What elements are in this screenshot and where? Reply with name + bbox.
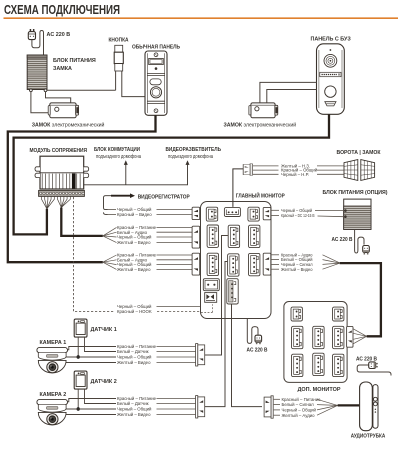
sensor ДАТЧИК 1	[74, 319, 87, 337]
svg-text:СХЕМА ПОДКЛЮЧЕНИЯ: СХЕМА ПОДКЛЮЧЕНИЯ	[4, 3, 120, 17]
svg-text:ЗАМОК электромеханический: ЗАМОК электромеханический	[32, 122, 105, 129]
svg-text:КНОПКА: КНОПКА	[109, 38, 129, 44]
connector C7	[207, 253, 218, 275]
junction dot camera2 common	[77, 407, 80, 410]
svg-text:Черный – Н.Р.: Черный – Н.Р.	[281, 172, 309, 177]
svg-text:ДАТЧИК 1: ДАТЧИК 1	[91, 327, 117, 333]
wire button right to panel	[122, 71, 145, 97]
camera1 port connector	[196, 344, 205, 366]
camera КАМЕРА 1	[37, 347, 68, 373]
wire C8 to camera2 port	[205, 262, 228, 407]
wire fan доп монитор	[353, 329, 366, 337]
connector C12 tall	[227, 279, 238, 304]
camera КАМЕРА 2	[37, 399, 68, 425]
gate icon	[344, 160, 375, 181]
connector D7	[313, 353, 324, 375]
sensor ДАТЧИК 2	[74, 371, 87, 389]
ac plug top-left	[28, 29, 35, 40]
wires to DVR labels	[108, 209, 117, 211]
connector C4	[207, 225, 218, 247]
wire module to labels with arrows	[84, 165, 188, 185]
svg-text:АУДИОТРУБКА: АУДИОТРУБКА	[351, 434, 386, 440]
svg-text:ОБЫЧНАЯ ПАНЕЛЬ: ОБЫЧНАЯ ПАНЕЛЬ	[132, 45, 180, 51]
wire button left	[115, 71, 117, 90]
wire C5 to camera1 port	[205, 236, 228, 356]
connector D4	[313, 326, 324, 348]
wire right terminal to button	[47, 89, 116, 91]
svg-text:Желтый – Видео: Желтый – Видео	[281, 267, 313, 272]
regular door panel	[145, 51, 167, 115]
wire C2 up to gate connector	[233, 169, 243, 207]
svg-text:ЗАМКА: ЗАМКА	[53, 66, 72, 72]
svg-text:ВОРОТА | ЗАМОК: ВОРОТА | ЗАМОК	[337, 150, 382, 156]
svg-text:Белый – Датчик: Белый – Датчик	[117, 401, 149, 406]
connector D5	[333, 326, 344, 348]
svg-text:БЛОК ПИТАНИЯ (ОПЦИЯ): БЛОК ПИТАНИЯ (ОПЦИЯ)	[323, 190, 388, 196]
svg-text:Белый – Сигнал: Белый – Сигнал	[282, 402, 315, 407]
wire fan module bundle A	[42, 197, 55, 209]
connector C2	[224, 208, 240, 217]
svg-text:МОДУЛЬ СОПРЯЖЕНИЯ: МОДУЛЬ СОПРЯЖЕНИЯ	[30, 148, 88, 154]
wire sensor1 left to common	[77, 337, 79, 357]
wire доп ac cord	[357, 365, 391, 376]
wire camera1 power jog	[64, 347, 117, 350]
svg-text:КАМЕРА 1: КАМЕРА 1	[40, 340, 67, 346]
wires gate labels	[253, 165, 279, 167]
svg-text:Черный – Общий: Черный – Общий	[117, 407, 152, 412]
wires handset labels	[274, 398, 280, 400]
connector D8	[333, 354, 344, 376]
connector C1	[206, 207, 217, 221]
thick wire module bundle2	[61, 208, 103, 236]
terminal right	[44, 89, 47, 92]
edge connector E3	[192, 253, 200, 275]
orange underline	[4, 17, 399, 19]
svg-text:Черный – Общий: Черный – Общий	[117, 235, 152, 240]
thick wire regular panel route	[8, 115, 156, 262]
thick wire to доп монитор	[340, 263, 381, 336]
ac plug monitor	[255, 335, 262, 344]
edge connector E2	[192, 226, 200, 248]
wire fan module bundle B	[58, 197, 71, 208]
wire bracket to DVR arrow	[104, 196, 112, 210]
svg-text:БЛОК КОММУТАЦИИ: БЛОК КОММУТАЦИИ	[94, 147, 140, 153]
svg-text:Черный – Общий: Черный – Общий	[117, 355, 152, 360]
wire lock2 upper	[260, 82, 317, 103]
wire camera1 video	[64, 362, 116, 364]
terminal left	[30, 89, 33, 92]
edge connector E5	[263, 253, 271, 275]
connector C3	[248, 207, 259, 221]
svg-text:ВИДЕОРЕГИСТРАТОР: ВИДЕОРЕГИСТРАТОР	[138, 194, 190, 200]
svg-text:Желтый – Видео: Желтый – Видео	[117, 412, 151, 417]
svg-text:Красный – Видео: Красный – Видео	[117, 212, 152, 217]
svg-text:Белый – Датчик: Белый – Датчик	[117, 349, 149, 354]
wires door1 labels	[157, 226, 193, 228]
wire camera2 video	[64, 414, 116, 416]
thick wire to handset	[338, 404, 360, 406]
panel with BUZ	[317, 44, 345, 115]
connector D2	[333, 307, 344, 321]
handset port connector	[264, 396, 273, 418]
svg-text:АС 220 В: АС 220 В	[332, 237, 353, 243]
connector C5	[228, 225, 239, 247]
wires hook labels	[157, 306, 208, 308]
edge connector E1	[192, 207, 200, 219]
svg-text:ВИДЕОРАЗВЕТВИТЕЛЬ: ВИДЕОРАЗВЕТВИТЕЛЬ	[166, 147, 222, 153]
wire camera2 power jog	[64, 399, 117, 402]
dashed wire inside monitor	[201, 304, 213, 312]
connector C8	[228, 254, 239, 276]
module соединения body	[35, 156, 89, 189]
lock 1	[48, 103, 79, 118]
svg-text:Красный – DC 12-15 В: Красный – DC 12-15 В	[281, 213, 315, 218]
ac plug PSU	[363, 246, 370, 255]
connector C9	[249, 253, 260, 275]
connector C6	[249, 225, 260, 247]
module terminal strip	[39, 190, 85, 196]
svg-text:Желтый – Видео: Желтый – Видео	[117, 360, 151, 365]
wire sensor2 right to white	[85, 389, 117, 403]
PSU terminals	[344, 209, 347, 212]
wire left terminal to lock left	[31, 92, 50, 113]
wires monitor right port labels	[271, 254, 279, 256]
svg-text:БЛОК ПИТАНИЯ: БЛОК ПИТАНИЯ	[53, 58, 96, 64]
wire PSU cord	[355, 229, 364, 253]
wire monitor ac cord	[247, 319, 258, 344]
connector D6	[292, 354, 303, 376]
wire right terminal to lock top	[46, 92, 71, 103]
camera2 port connector	[196, 396, 205, 418]
wire fan door1	[103, 227, 117, 236]
wire camera2 common	[66, 408, 116, 410]
wire camera1 common	[66, 356, 116, 358]
svg-text:ДАТЧИК 2: ДАТЧИК 2	[91, 379, 117, 385]
svg-text:ГЛАВНЫЙ МОНИТОР: ГЛАВНЫЙ МОНИТОР	[236, 192, 285, 200]
svg-text:ЗАМОК электромеханический: ЗАМОК электромеханический	[224, 122, 297, 129]
wires monitor to PSU labels	[271, 209, 279, 211]
wire C12 to handset port	[232, 304, 263, 406]
PSU option block	[344, 199, 371, 229]
svg-text:ДОП. МОНИТОР: ДОП. МОНИТОР	[298, 387, 341, 393]
svg-text:AC 220 В: AC 220 В	[247, 347, 268, 353]
ac plug доп	[369, 362, 378, 369]
power supply block of lock	[27, 55, 47, 90]
svg-text:Желтый – Видео: Желтый – Видео	[117, 267, 151, 272]
audio handset	[360, 382, 378, 431]
wires door2 labels	[157, 254, 193, 256]
svg-text:Красный – HOOK: Красный – HOOK	[117, 309, 152, 314]
svg-text:Желтый – Видео: Желтый – Видео	[117, 240, 151, 245]
button	[114, 45, 123, 71]
svg-text:КАМЕРА 2: КАМЕРА 2	[40, 392, 67, 398]
lock 2	[249, 103, 278, 118]
wire lock2 lower	[267, 90, 317, 103]
wire sensor1 right to white	[85, 337, 117, 351]
доп монитор edge connector	[347, 326, 353, 347]
wires labels to PSU	[315, 210, 344, 212]
svg-text:подъездного домофона: подъездного домофона	[96, 154, 141, 160]
svg-text:Красный – Питание: Красный – Питание	[282, 397, 322, 402]
svg-text:Черный – Общий: Черный – Общий	[282, 408, 317, 413]
thick wire buz panel route	[14, 114, 329, 234]
svg-text:подъездного домофона: подъездного домофона	[168, 154, 213, 160]
svg-text:AC 220 В: AC 220 В	[47, 32, 71, 38]
wire sensor2 left to common	[77, 389, 79, 409]
wire plug cord to power block	[32, 31, 44, 56]
wire fan door2	[103, 255, 117, 262]
junction dot camera1 common	[77, 355, 80, 358]
connector D3	[292, 326, 303, 348]
доп монитор box	[284, 302, 347, 383]
connector C10 speaker	[203, 279, 219, 291]
gate connector	[243, 164, 252, 176]
connector D1	[291, 307, 302, 321]
dashed wire module hook	[73, 197, 114, 311]
edge connector E4	[263, 207, 271, 219]
svg-text:ПАНЕЛЬ С БУЗ: ПАНЕЛЬ С БУЗ	[311, 37, 352, 43]
connector C11 hook switch	[205, 293, 217, 303]
svg-text:Желтый – Аудио: Желтый – Аудио	[282, 413, 316, 418]
main monitor box	[201, 202, 272, 319]
